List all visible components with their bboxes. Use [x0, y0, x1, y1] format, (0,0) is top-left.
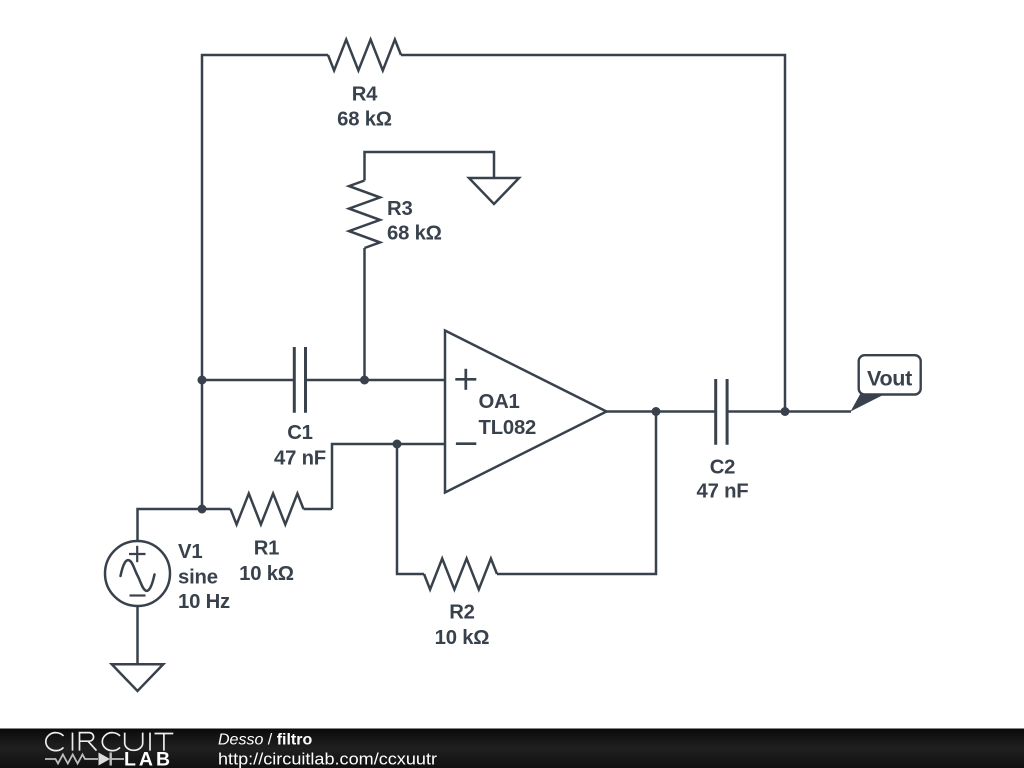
op-amp minus symbol [456, 442, 476, 445]
node dot output [652, 407, 661, 416]
op-amp plus symbol [455, 369, 476, 390]
logo letter U [125, 733, 143, 751]
label R4 [337, 84, 392, 131]
label V1 [178, 541, 230, 613]
logo letter R [80, 733, 97, 751]
svg-text:68 kΩ: 68 kΩ [337, 109, 392, 131]
label R3 [387, 198, 442, 245]
resistor R3 [349, 181, 380, 249]
svg-text:Desso / filtro: Desso / filtro [218, 732, 312, 749]
logo mini resistor [45, 755, 98, 764]
label R2 [435, 602, 490, 650]
ground under V1 [112, 664, 164, 691]
resistor R1 [231, 494, 304, 525]
svg-text:http://circuitlab.com/ccxuutr: http://circuitlab.com/ccxuutr [218, 750, 437, 768]
logo letter I2 [149, 733, 151, 751]
svg-text:TL082: TL082 [479, 417, 537, 439]
svg-text:10 kΩ: 10 kΩ [435, 627, 490, 649]
svg-text:R2: R2 [449, 602, 475, 624]
wire V1 to R1 [138, 509, 231, 541]
wire C1 to op-amp plus input [306, 379, 446, 382]
svg-text:68 kΩ: 68 kΩ [387, 223, 442, 245]
svg-text:LAB: LAB [124, 749, 173, 768]
wire R1 right [304, 508, 333, 511]
svg-text:47 nF: 47 nF [697, 481, 749, 503]
node dot A [198, 376, 207, 385]
resistor R4 [328, 40, 401, 71]
resistor R2 [424, 559, 497, 590]
logo letter C2 [102, 733, 120, 751]
wire R3 bottom [363, 248, 366, 380]
label R1 [239, 538, 294, 585]
svg-text:C1: C1 [287, 422, 313, 444]
svg-text:OA1: OA1 [479, 391, 520, 413]
wire R3 top to ground [365, 152, 495, 181]
svg-text:V1: V1 [178, 541, 202, 563]
wire top left segment and left vertical [202, 55, 328, 509]
wire V1 stem bottom [136, 606, 139, 664]
label C2 [697, 456, 749, 502]
wire minus input [332, 444, 445, 509]
wire C2 to Vout [727, 410, 851, 413]
svg-text:10 kΩ: 10 kΩ [239, 563, 294, 585]
capacitor C1 [294, 347, 305, 413]
label C1 [274, 422, 326, 469]
wire R2 right to output node [497, 412, 656, 575]
logo letter C [46, 733, 64, 751]
wire feedback R2 left vertical [397, 444, 424, 574]
svg-text:R3: R3 [387, 198, 413, 220]
logo mini diode [99, 753, 125, 766]
wire op-amp output [607, 410, 716, 413]
node dot minus input [393, 440, 402, 449]
footer bar [0, 729, 1024, 768]
svg-text:10 Hz: 10 Hz [178, 591, 230, 613]
Vout flag [851, 355, 921, 411]
voltage source V1 [105, 541, 170, 606]
logo letter T [155, 734, 174, 751]
op-amp U1 triangle [445, 331, 607, 493]
wire top right segment and right vertical [401, 55, 785, 412]
label OA1 TL082 [479, 391, 537, 439]
node dot V1-R1 [198, 505, 207, 514]
logo letter I [72, 733, 74, 751]
wire node A to C1 [202, 379, 294, 382]
svg-text:R1: R1 [254, 538, 280, 560]
svg-text:C2: C2 [710, 456, 736, 478]
svg-text:47 nF: 47 nF [274, 447, 326, 469]
svg-text:Vout: Vout [867, 367, 912, 391]
node dot C1-R3 [360, 376, 369, 385]
ground near R3 [469, 178, 519, 204]
svg-text:R4: R4 [352, 84, 378, 106]
node dot C2 right [781, 407, 790, 416]
capacitor C2 [716, 379, 727, 445]
svg-text:sine: sine [178, 567, 218, 589]
